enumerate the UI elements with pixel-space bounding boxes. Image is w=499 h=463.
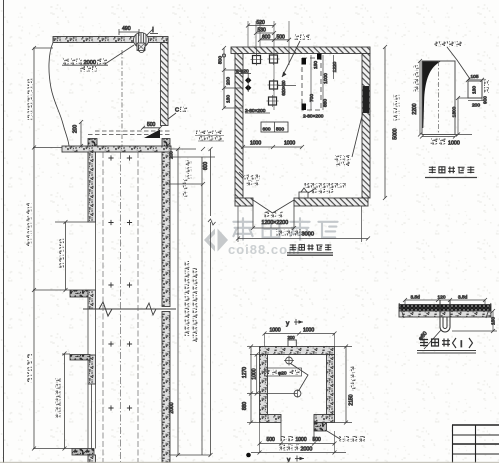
svg-text:2-80×200: 2-80×200 (303, 114, 324, 120)
title block table (452, 425, 499, 463)
right shaft wall hatched (162, 152, 170, 307)
door sills (70, 290, 88, 297)
svg-text:2200: 2200 (412, 103, 418, 114)
hoisting hook circle detail I (134, 33, 149, 53)
dim 1000 1000 (241, 141, 304, 150)
svg-text:1000: 1000 (448, 141, 460, 147)
svg-text:500: 500 (147, 122, 156, 128)
call box hole rect (468, 81, 482, 98)
left dim chain: extension ticks (33, 47, 53, 49)
svg-text:120: 120 (438, 295, 446, 301)
svg-text:1300: 1300 (452, 106, 458, 117)
dim machine room depth >=5000 (383, 45, 400, 200)
door height dim (412, 59, 422, 137)
svg-text:150: 150 (491, 317, 497, 325)
bottom door dims (258, 436, 337, 446)
svg-text:I: I (460, 339, 463, 350)
door opening #2 lines (87, 309, 89, 355)
svg-text:600: 600 (263, 127, 271, 133)
svg-text:880: 880 (323, 99, 329, 107)
dim text: top floor height (27, 203, 32, 208)
interior dim lines right (310, 55, 312, 110)
right side dim extension lines (170, 148, 196, 150)
call hole block below wall (314, 423, 365, 443)
door width dim (420, 135, 460, 147)
door leaf dark wedge (423, 62, 441, 129)
svg-text:1000: 1000 (303, 328, 314, 334)
left shaft wall hatched segments (88, 152, 96, 222)
power switch label and symbol (299, 183, 346, 198)
beam cross-section bars (399, 305, 491, 312)
shaft centerlines (102, 152, 104, 462)
left main dimension line (33, 48, 35, 449)
dim 490 above slab (119, 26, 139, 36)
svg-text:1220: 1220 (332, 61, 338, 72)
vent window black block on right wall (363, 86, 369, 113)
dim text: machine room clear height 2800 (28, 78, 33, 83)
ceiling dashed opening lines (88, 134, 170, 136)
dim 150 right (452, 309, 497, 333)
svg-text:200: 200 (73, 125, 79, 134)
watermark logo diamond (204, 229, 228, 252)
svg-text:I: I (152, 27, 154, 34)
long dim line with break (210, 149, 212, 216)
rope hole circles (284, 356, 294, 366)
top stub block (288, 340, 296, 347)
C2L weld label (168, 107, 187, 119)
svg-text:1000: 1000 (252, 368, 258, 379)
dims around call box (452, 74, 490, 137)
hook dim line (403, 295, 487, 305)
machine room plan: top wall (231, 47, 370, 54)
drawing frame left border (3, 0, 5, 463)
svg-text:5000: 5000 (393, 128, 399, 139)
top dims 520/530/600/500 (246, 20, 291, 47)
beam end cut marks (399, 303, 491, 318)
section mark I label (147, 27, 158, 35)
watermark big characters (233, 218, 337, 240)
svg-text:105: 105 (471, 74, 479, 80)
page bottom edge (0, 462, 499, 463)
svg-text:900: 900 (483, 96, 488, 104)
svg-text:3.5d: 3.5d (411, 295, 421, 301)
title: machine room hole plan (290, 244, 331, 250)
svg-text:1200×2200: 1200×2200 (262, 220, 289, 226)
break wavy line left of machine room (49, 43, 69, 147)
machine room door label (262, 212, 289, 227)
hall door opening rectangle (422, 61, 455, 135)
title: beam hook (I) (420, 339, 450, 347)
plan interior extension lines (273, 47, 275, 110)
machine room door recess (251, 200, 296, 230)
wall top blocks above floor (88, 139, 97, 147)
hook leader phi (418, 330, 441, 349)
svg-text:2000: 2000 (169, 402, 175, 413)
long vertical annotation texts (185, 261, 190, 266)
hook U shape (440, 300, 450, 332)
exhaust fan label (239, 172, 260, 186)
svg-text:700: 700 (309, 94, 315, 102)
dim text: std floor height 2800 (56, 378, 61, 383)
reference dot (246, 453, 251, 458)
svg-text:150: 150 (313, 61, 319, 69)
svg-text:620×20: 620×20 (281, 80, 286, 96)
svg-text:200: 200 (288, 335, 296, 340)
dashed equipment outline (302, 58, 321, 110)
machine room top slab (section) (53, 37, 168, 43)
call box hole label (435, 41, 471, 79)
svg-text:200: 200 (226, 77, 232, 85)
label vent hole with leader arrow (282, 35, 311, 78)
svg-text:880: 880 (242, 402, 248, 411)
svg-text:3000: 3000 (302, 232, 314, 238)
svg-text:1000: 1000 (284, 141, 295, 147)
y axis arrow top (286, 319, 303, 327)
dim text: door height 2200 (59, 238, 64, 243)
reserved hole note text (195, 131, 224, 142)
dim box 600/500 (261, 122, 288, 133)
dim machine room width >=3000 (236, 206, 370, 242)
svg-text:φ20: φ20 (278, 371, 287, 377)
door opening #1 dim line (65, 222, 67, 290)
svg-text:130: 130 (472, 86, 478, 94)
y axis arrow bottom (287, 456, 304, 463)
svg-text:600: 600 (203, 162, 209, 171)
plan top dim 1000 1000 (263, 328, 337, 347)
left dim chain 500/200/180 (218, 46, 244, 110)
door opening #1 jamb line (95, 222, 97, 290)
plan left dims (242, 345, 297, 425)
svg-text:1000: 1000 (323, 73, 329, 84)
shaft width dim 2000 (251, 423, 346, 455)
svg-text:500: 500 (267, 437, 276, 443)
svg-text:200: 200 (472, 103, 480, 109)
door gap verticals (280, 423, 282, 442)
right dim verticals (177, 149, 179, 455)
machine room centerline (121, 50, 123, 146)
svg-text:500: 500 (276, 127, 284, 133)
dim 200 at floor slab (73, 120, 84, 148)
svg-text:1270: 1270 (242, 367, 248, 378)
svg-text:1000: 1000 (270, 328, 281, 334)
svg-text:3.5d: 3.5d (458, 295, 468, 301)
machine room plan: right wall (362, 54, 370, 199)
anchor bolt squares (251, 54, 263, 66)
machine room plan: bottom wall segments (235, 198, 253, 206)
std floor height dim line (64, 354, 66, 449)
door opening #3 lines (87, 384, 89, 449)
dim texts <=7000 <=2000 (186, 160, 192, 166)
machine room right wall (section) (161, 43, 169, 126)
svg-text:2000: 2000 (301, 447, 313, 453)
hook load text leader (62, 45, 134, 72)
rail bracket + marks (108, 155, 132, 410)
vent window label (335, 112, 364, 167)
dim text: travel height (27, 354, 32, 359)
dim 500 and support wedge (141, 122, 162, 138)
svg-text:500: 500 (313, 437, 322, 443)
svg-text:490: 490 (122, 26, 131, 32)
title: hall door hole diagram (429, 166, 474, 173)
svg-text:180: 180 (226, 95, 232, 103)
section break line with zigzags (83, 302, 176, 316)
2-phi20 label and holes (235, 69, 251, 93)
machine room floor slab (section) (62, 146, 171, 152)
shaft plan walls (260, 347, 335, 355)
svg-text:1000: 1000 (250, 141, 261, 147)
svg-text:200: 200 (169, 151, 174, 159)
door centerline (438, 61, 440, 135)
plan right dim depth 2150 (335, 345, 356, 425)
svg-text:1000: 1000 (296, 437, 307, 443)
zigzag leader and hole label (291, 364, 309, 392)
machine room plan: left wall (235, 54, 243, 199)
svg-text:C: C (175, 108, 179, 114)
svg-text:2150: 2150 (349, 394, 355, 405)
